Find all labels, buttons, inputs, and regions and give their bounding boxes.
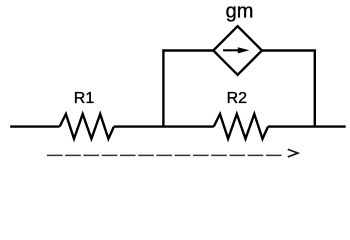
resistor R2: [214, 114, 268, 139]
dashed arrow head: [288, 149, 298, 157]
dashed arrow line: [47, 154, 282, 156]
svg-text:gm: gm: [226, 1, 254, 23]
current source U1 diamond: [213, 26, 262, 75]
svg-text:R1: R1: [74, 90, 95, 107]
svg-text:R2: R2: [227, 90, 248, 107]
current source arrow: [223, 47, 249, 53]
wire left riser: [163, 51, 213, 127]
wire main left segment: [10, 125, 59, 127]
wire right segment: [268, 125, 346, 127]
wire middle segment: [114, 125, 214, 127]
wire right riser: [262, 51, 315, 127]
resistor R1: [60, 114, 114, 139]
